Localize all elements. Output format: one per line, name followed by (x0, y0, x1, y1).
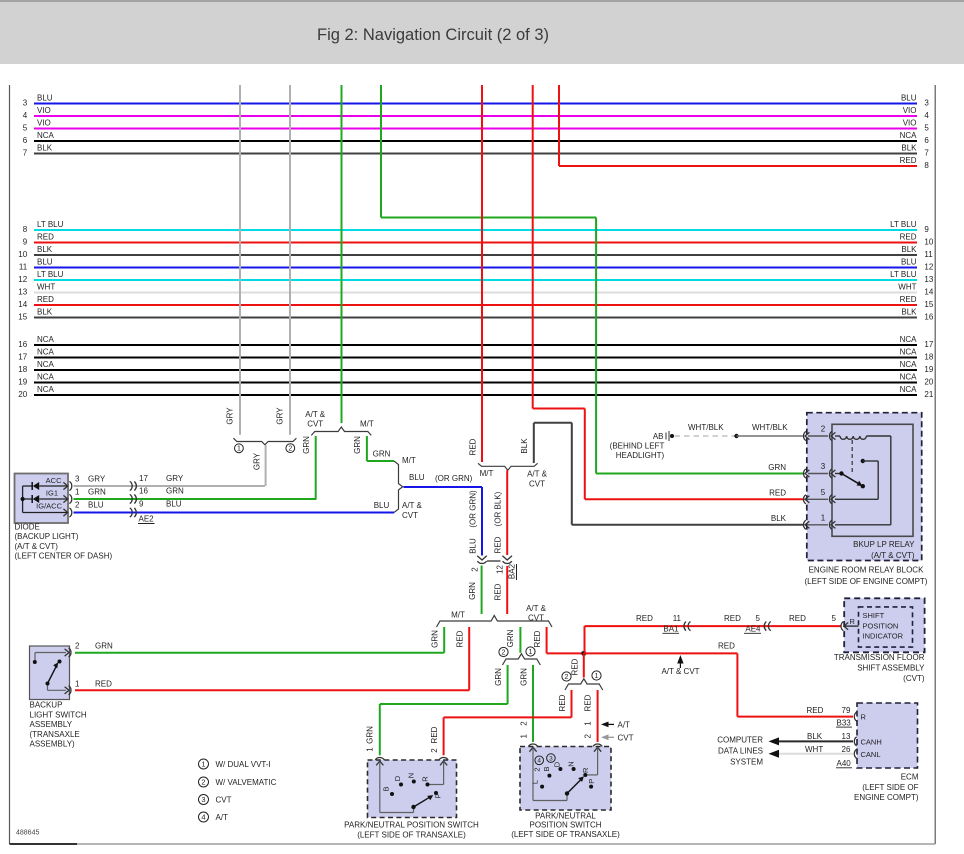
svg-text:20: 20 (18, 390, 27, 399)
svg-text:RED: RED (769, 489, 786, 498)
svg-text:BACKUP: BACKUP (30, 701, 63, 710)
svg-text:N: N (407, 773, 416, 778)
node junction dot diode bus (21, 497, 25, 501)
right border (934, 85, 936, 844)
svg-text:LT BLU: LT BLU (37, 220, 64, 229)
svg-text:R: R (850, 617, 856, 626)
relay coil (835, 435, 840, 437)
svg-text:AE2: AE2 (139, 515, 155, 524)
svg-text:11: 11 (19, 263, 28, 272)
ECM box (857, 703, 918, 768)
svg-text:RED: RED (570, 658, 579, 675)
svg-text:NCA: NCA (37, 131, 55, 140)
svg-text:ENGINE ROOM RELAY BLOCK: ENGINE ROOM RELAY BLOCK (809, 566, 925, 575)
svg-text:B: B (542, 766, 551, 771)
svg-text:2: 2 (471, 567, 480, 572)
header bar (0, 0, 964, 64)
svg-text:R: R (420, 776, 429, 782)
svg-text:BLU: BLU (901, 258, 917, 267)
svg-text:IG/ACC: IG/ACC (36, 502, 62, 511)
footnote 2 marker GRN (499, 647, 508, 656)
svg-text:BLU: BLU (901, 94, 917, 103)
wire BLK loop to relay (533, 423, 535, 463)
svg-text:4: 4 (924, 111, 929, 120)
shift position indicator box (844, 598, 924, 652)
svg-text:GRN: GRN (353, 436, 362, 454)
svg-text:VIO: VIO (903, 119, 917, 128)
svg-text:5: 5 (23, 124, 28, 133)
svg-text:(LEFT SIDE OF TRANSAXLE): (LEFT SIDE OF TRANSAXLE) (357, 830, 466, 839)
svg-text:11: 11 (924, 250, 933, 259)
relay armature link (851, 440, 853, 474)
svg-text:3: 3 (23, 99, 28, 108)
wire RED vertical to jog (532, 85, 534, 409)
wire RED row 9 (34, 242, 917, 244)
wire NCA row 20 (34, 394, 917, 396)
svg-text:15: 15 (18, 313, 27, 322)
svg-text:10: 10 (924, 238, 933, 247)
svg-text:B33: B33 (837, 718, 852, 727)
wire LT BLU row 12 (34, 279, 917, 281)
wire GRY vertical 1 (239, 85, 241, 435)
brace GRN split (311, 427, 371, 435)
svg-text:GRN: GRN (768, 463, 786, 472)
svg-text:19: 19 (924, 365, 933, 374)
svg-text:CANL: CANL (861, 750, 881, 759)
svg-text:RED: RED (807, 706, 824, 715)
svg-text:4: 4 (537, 758, 541, 765)
svg-text:RED: RED (469, 438, 478, 455)
svg-text:POSITION: POSITION (863, 621, 899, 630)
node merge brace GRY (233, 438, 296, 445)
svg-text:2: 2 (821, 425, 826, 434)
svg-text:NCA: NCA (37, 360, 55, 369)
svg-text:9: 9 (924, 225, 929, 234)
svg-text:A/T &: A/T & (527, 470, 548, 479)
svg-text:7: 7 (23, 149, 28, 158)
svg-text:(A/T & CVT): (A/T & CVT) (15, 542, 59, 551)
svg-text:M/T: M/T (360, 419, 374, 428)
svg-text:WHT/BLK: WHT/BLK (688, 423, 724, 432)
diode assembly box (15, 474, 69, 524)
svg-text:GRN: GRN (302, 436, 311, 454)
left border (9, 85, 11, 844)
wire RED up to shift indicator row (584, 626, 586, 653)
svg-text:17: 17 (924, 340, 933, 349)
wire RED M/T branch (468, 627, 470, 690)
wire BLK CANH (775, 740, 854, 742)
svg-text:VIO: VIO (903, 106, 917, 115)
svg-text:3: 3 (924, 99, 929, 108)
svg-text:8: 8 (924, 161, 929, 170)
svg-text:6: 6 (924, 136, 929, 145)
svg-text:13: 13 (924, 275, 933, 284)
wire WHT CANL (775, 753, 854, 755)
svg-text:NCA: NCA (900, 373, 918, 382)
svg-text:1: 1 (821, 514, 826, 523)
footnote 1 marker GRN (526, 647, 535, 656)
left P/N pin 1 connector (375, 757, 384, 759)
svg-text:3: 3 (75, 475, 80, 484)
svg-text:RED: RED (789, 614, 806, 623)
wire NCA row 16 (34, 344, 917, 346)
svg-text:1: 1 (75, 679, 80, 688)
svg-text:ASSEMBLY: ASSEMBLY (30, 720, 73, 729)
svg-text:CVT: CVT (528, 614, 544, 623)
svg-text:2: 2 (565, 674, 569, 681)
svg-text:LT BLU: LT BLU (37, 270, 64, 279)
svg-text:RED: RED (430, 726, 439, 743)
connector AE4 (768, 622, 770, 631)
svg-text:RED: RED (900, 233, 917, 242)
svg-text:NCA: NCA (900, 335, 918, 344)
svg-text:WHT/BLK: WHT/BLK (752, 423, 788, 432)
left P/N internals (379, 762, 381, 813)
svg-text:RED: RED (558, 694, 567, 711)
svg-text:BA1: BA1 (663, 625, 679, 634)
svg-text:1: 1 (201, 759, 205, 768)
svg-text:1: 1 (529, 649, 533, 656)
svg-text:(OR GRN): (OR GRN) (435, 474, 473, 483)
svg-text:BLK: BLK (37, 144, 53, 153)
svg-text:2: 2 (288, 446, 292, 453)
svg-text:21: 21 (924, 390, 933, 399)
wire NCA row 6 (34, 140, 917, 142)
left P/N contacts (390, 792, 394, 796)
svg-text:ECM: ECM (901, 773, 919, 782)
svg-text:BLU: BLU (469, 538, 478, 554)
wire GRN M/T branch (443, 627, 445, 653)
wire RED variant 2 (571, 690, 573, 717)
wire BLU from diode pin 2 (74, 512, 395, 514)
svg-text:BKUP LP RELAY: BKUP LP RELAY (853, 540, 915, 549)
svg-text:LIGHT SWITCH: LIGHT SWITCH (30, 710, 87, 719)
bkup lp relay inner box (832, 424, 913, 536)
svg-text:D: D (393, 775, 402, 781)
svg-text:AB: AB (653, 432, 664, 441)
wire GRN A/T-CVT branch (519, 627, 521, 653)
svg-text:HEADLIGHT): HEADLIGHT) (616, 451, 665, 460)
svg-text:M/T: M/T (402, 456, 416, 465)
backup light switch internals (35, 652, 66, 654)
svg-text:1: 1 (365, 747, 374, 752)
svg-text:DATA LINES: DATA LINES (718, 747, 763, 756)
svg-text:PARK/NEUTRAL POSITION SWITCH: PARK/NEUTRAL POSITION SWITCH (344, 821, 479, 830)
svg-text:BLK: BLK (37, 308, 53, 317)
svg-text:A40: A40 (837, 759, 852, 768)
footnote 1 marker RED (592, 671, 601, 680)
svg-text:RED: RED (724, 614, 741, 623)
svg-text:13: 13 (18, 288, 27, 297)
svg-text:1: 1 (237, 446, 241, 453)
svg-text:(BACKUP LIGHT): (BACKUP LIGHT) (15, 532, 79, 541)
wire GRN branch right (366, 436, 368, 461)
svg-text:R: R (581, 767, 590, 773)
svg-text:BLU: BLU (37, 258, 53, 267)
legend footnote 3 (199, 795, 209, 805)
svg-text:6: 6 (23, 136, 28, 145)
backup switch pin 2 connector (69, 648, 71, 657)
diode D1 (23, 485, 33, 487)
right P/N pin connector RED (593, 744, 602, 746)
wire NCA row 18 (34, 369, 917, 371)
wire RED below connector (506, 566, 508, 614)
svg-text:A/T &: A/T & (526, 604, 547, 613)
svg-text:8: 8 (23, 225, 28, 234)
wire BLU row 3 (34, 103, 917, 105)
svg-text:RED: RED (636, 614, 653, 623)
wire RED variant 1 (597, 690, 599, 742)
svg-text:GRN: GRN (166, 487, 184, 496)
svg-text:BLU: BLU (374, 501, 390, 510)
wire GRY vertical 2 (289, 85, 291, 435)
svg-text:GRY: GRY (166, 474, 184, 483)
svg-text:GRN: GRN (95, 642, 113, 651)
svg-text:2: 2 (75, 501, 80, 510)
svg-text:(LEFT SIDE OF TRANSAXLE): (LEFT SIDE OF TRANSAXLE) (511, 830, 620, 839)
svg-text:B: B (381, 786, 390, 791)
svg-text:CVT: CVT (529, 480, 545, 489)
svg-text:19: 19 (18, 378, 27, 387)
right P/N contacts (540, 785, 544, 789)
svg-text:SHIFT ASSEMBLY: SHIFT ASSEMBLY (857, 664, 925, 673)
annotation arrow A/T (601, 722, 609, 728)
svg-text:WHT: WHT (37, 283, 55, 292)
svg-text:BLK: BLK (901, 144, 917, 153)
wire RED vertical M/T (481, 85, 483, 462)
wire RED (OR BLK) output (506, 470, 508, 555)
svg-text:RED: RED (456, 630, 465, 647)
svg-text:9: 9 (139, 500, 144, 509)
svg-text:P: P (433, 793, 442, 798)
footnote 2 marker RED (562, 672, 571, 681)
svg-text:RED: RED (494, 583, 503, 600)
connector 2 on BLU (477, 556, 487, 560)
svg-text:CVT: CVT (216, 796, 232, 805)
connector 12 BA2 on RED (502, 556, 512, 560)
wire LT BLU row 8 (34, 229, 917, 231)
svg-text:RED: RED (37, 233, 54, 242)
svg-text:11: 11 (673, 614, 682, 623)
wire BLK row 15 (34, 317, 917, 319)
svg-text:2: 2 (430, 748, 439, 753)
svg-text:NCA: NCA (900, 385, 918, 394)
svg-text:ENGINE COMPT): ENGINE COMPT) (854, 793, 919, 802)
svg-text:5: 5 (821, 488, 826, 497)
svg-text:CVT: CVT (307, 419, 323, 428)
wire GRN vertical (A/T & CVT | M/T split) (341, 85, 343, 423)
footnote 3 marker (547, 754, 556, 763)
svg-text:BLU: BLU (166, 500, 182, 509)
svg-text:BLK: BLK (520, 438, 529, 454)
brace merge RED/BLK (478, 463, 538, 470)
svg-text:12: 12 (18, 275, 27, 284)
wire NCA row 19 (34, 382, 917, 384)
bottom border (10, 843, 936, 845)
svg-text:16: 16 (924, 313, 933, 322)
wire GRN variant 2 (507, 665, 509, 704)
svg-text:INDICATOR: INDICATOR (863, 632, 904, 641)
diode pin connectors (63, 482, 67, 489)
wire GRN below connector (481, 566, 483, 615)
svg-text:NCA: NCA (37, 348, 55, 357)
svg-text:RED: RED (584, 694, 593, 711)
wire RED A/T-CVT branch (546, 627, 548, 653)
svg-text:4: 4 (201, 812, 205, 821)
svg-text:COMPUTER: COMPUTER (717, 736, 763, 745)
svg-text:A/T &: A/T & (305, 410, 326, 419)
brace RED variant split (565, 679, 603, 690)
svg-text:ASSEMBLY): ASSEMBLY) (30, 740, 76, 749)
svg-text:LT BLU: LT BLU (890, 270, 917, 279)
svg-text:IG1: IG1 (46, 488, 58, 497)
svg-text:L: L (530, 780, 539, 784)
svg-text:(LEFT CENTER OF DASH): (LEFT CENTER OF DASH) (15, 552, 113, 561)
svg-text:BLK: BLK (901, 308, 917, 317)
svg-text:20: 20 (924, 378, 933, 387)
svg-text:15: 15 (924, 300, 933, 309)
svg-text:P: P (587, 779, 596, 784)
svg-text:W/ DUAL VVT-I: W/ DUAL VVT-I (216, 760, 271, 769)
svg-text:NCA: NCA (900, 360, 918, 369)
svg-text:BLU: BLU (88, 501, 104, 510)
svg-text:A/T: A/T (618, 720, 631, 729)
svg-text:A/T & CVT: A/T & CVT (661, 667, 699, 676)
svg-text:CVT: CVT (402, 511, 418, 520)
connector AE2 row1 (130, 481, 132, 490)
svg-text:BLU: BLU (37, 94, 53, 103)
svg-text:A/T: A/T (216, 813, 229, 822)
svg-text:DIODE: DIODE (15, 523, 40, 532)
svg-text:N: N (566, 761, 575, 766)
svg-text:NCA: NCA (37, 385, 55, 394)
svg-text:488645: 488645 (16, 830, 39, 837)
svg-text:ACC: ACC (46, 476, 62, 485)
svg-text:1: 1 (584, 721, 593, 726)
svg-text:NCA: NCA (900, 131, 918, 140)
svg-text:NCA: NCA (900, 348, 918, 357)
svg-text:GRN: GRN (520, 668, 529, 686)
wire BLU row 11 (34, 267, 917, 269)
wire BLK row 10 (34, 254, 917, 256)
svg-text:18: 18 (924, 353, 933, 362)
wire IG/ACC stub (23, 512, 67, 514)
svg-text:13: 13 (842, 732, 851, 741)
svg-text:18: 18 (18, 365, 27, 374)
brace GRN variant split (503, 654, 541, 665)
wire GRY from diode pin 3 (74, 485, 266, 487)
svg-text:5: 5 (924, 124, 929, 133)
svg-text:CVT: CVT (618, 733, 634, 742)
connector BA1 (688, 622, 690, 631)
legend footnote 2 (199, 777, 209, 787)
svg-text:W/ VALVEMATIC: W/ VALVEMATIC (216, 778, 277, 787)
wire VIO row 4 (34, 115, 917, 117)
left P/N lever (411, 805, 415, 809)
wire GRN vertical to relay (380, 85, 382, 218)
svg-text:VIO: VIO (37, 119, 51, 128)
annotation arrow CVT (601, 734, 609, 740)
svg-text:3: 3 (201, 795, 205, 804)
right P/N pin connector GRN (528, 744, 537, 746)
wire RED row 14 (34, 304, 917, 306)
svg-text:(BEHIND LEFT: (BEHIND LEFT (610, 441, 665, 450)
svg-text:(OR BLK): (OR BLK) (494, 491, 503, 526)
svg-text:14: 14 (924, 288, 933, 297)
relay coil loop (890, 436, 892, 525)
svg-text:BA2: BA2 (508, 563, 517, 579)
svg-text:3: 3 (549, 756, 553, 763)
svg-text:1: 1 (520, 734, 529, 739)
svg-text:GRN: GRN (365, 726, 374, 744)
svg-text:VIO: VIO (37, 106, 51, 115)
legend footnote 1 (199, 759, 209, 769)
svg-text:R: R (861, 713, 867, 722)
svg-text:(TRANSAXLE: (TRANSAXLE (30, 730, 80, 739)
brace transmission split (437, 616, 553, 628)
svg-text:12: 12 (924, 263, 933, 272)
svg-text:17: 17 (18, 353, 27, 362)
svg-text:D: D (552, 761, 561, 767)
backup light switch box (30, 646, 70, 700)
legend footnote 4 (199, 812, 209, 822)
wire NCA row 17 (34, 357, 917, 359)
left P/N pin 2 connector (439, 757, 448, 759)
svg-text:3: 3 (821, 462, 826, 471)
svg-text:10: 10 (18, 250, 27, 259)
connector AE2 row3 (130, 508, 132, 517)
node junction dot RED (581, 651, 586, 656)
svg-text:2: 2 (520, 721, 529, 726)
svg-text:RED: RED (37, 295, 54, 304)
svg-text:12: 12 (496, 565, 505, 574)
svg-text:CANH: CANH (861, 737, 882, 746)
svg-text:LT BLU: LT BLU (890, 220, 917, 229)
svg-text:(OR GRN): (OR GRN) (469, 490, 478, 528)
svg-text:2: 2 (584, 734, 593, 739)
wire RED to ECM branch (584, 652, 738, 654)
svg-text:GRY: GRY (226, 407, 235, 425)
shift position indicator inner box (859, 607, 913, 647)
SPI pin connector (841, 622, 843, 631)
svg-text:5: 5 (832, 614, 837, 623)
wire GRN from diode pin 1 (74, 498, 317, 500)
svg-text:RED: RED (718, 642, 735, 651)
ECM pin R connector (854, 712, 856, 721)
wire GRY merged vertical (265, 445, 267, 486)
svg-text:(LEFT SIDE OF ENGINE COMPT): (LEFT SIDE OF ENGINE COMPT) (805, 577, 928, 586)
svg-text:RED: RED (900, 156, 917, 165)
svg-text:M/T: M/T (451, 611, 465, 620)
wire BLU (OR GRN) output (404, 486, 483, 488)
svg-text:1: 1 (75, 488, 80, 497)
wire GRN branch left (315, 436, 317, 499)
svg-text:NCA: NCA (37, 373, 55, 382)
svg-text:GRN: GRN (506, 629, 515, 647)
brace merge to BLU (OR GRN) (394, 461, 403, 513)
right P/N lever (565, 791, 569, 795)
wire VIO row 5 (34, 128, 917, 130)
svg-text:GRN: GRN (373, 450, 391, 459)
svg-text:GRN: GRN (468, 582, 477, 600)
svg-text:BLK: BLK (771, 514, 787, 523)
svg-text:BLU: BLU (409, 473, 425, 482)
svg-text:TRANSMISSION FLOOR: TRANSMISSION FLOOR (834, 653, 925, 662)
svg-text:PARK/NEUTRAL: PARK/NEUTRAL (535, 812, 596, 821)
svg-text:GRN: GRN (494, 668, 503, 686)
svg-text:SHIFT: SHIFT (863, 611, 885, 620)
svg-text:Fig 2: Navigation Circuit (2 o: Fig 2: Navigation Circuit (2 of 3) (317, 26, 549, 44)
